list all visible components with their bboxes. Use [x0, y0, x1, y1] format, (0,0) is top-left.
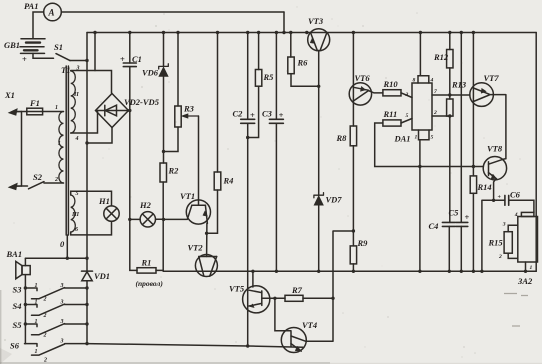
wire left vertical below VD1 to S6 row [86, 281, 88, 344]
wire R8 to R9 [352, 146, 354, 246]
wire C5 to common rail [460, 226, 462, 271]
wire R3 bottom bracket to VD6/R2 line [164, 127, 179, 152]
svg-text:II: II [73, 92, 79, 98]
wire rail to C2 [247, 33, 249, 120]
resistor R11 [383, 120, 401, 126]
speaker BA1 [16, 261, 22, 278]
svg-text:S5: S5 [13, 320, 23, 330]
connector X1 pin 1 arrow [12, 111, 22, 114]
svg-text:R13: R13 [451, 80, 467, 90]
svg-text:5: 5 [406, 113, 409, 119]
scan smudge left edge [0, 290, 1, 364]
svg-text:1: 1 [35, 283, 38, 289]
wire speaker bottom lead to switch column [24, 275, 26, 344]
svg-text:+: + [22, 54, 27, 64]
DA1 pin 7 wire to VT7 base [432, 94, 470, 96]
wire X1 pin2 to S2 [17, 185, 28, 187]
resistor R13 [447, 99, 453, 116]
wire bottom rail sloping like scan [87, 344, 303, 348]
transformer T1 winding II [71, 71, 76, 133]
svg-text:VT1: VT1 [180, 191, 195, 201]
svg-text:C1: C1 [132, 54, 142, 64]
capacitor C2 [241, 119, 255, 123]
wire C1 down through H2 node to R1 left [130, 67, 137, 271]
wire rail to VD6 [163, 33, 165, 67]
wire C3 to common rail [275, 123, 277, 271]
svg-text:3: 3 [502, 222, 506, 228]
svg-text:3: 3 [76, 66, 80, 72]
transistor VT2 [195, 255, 217, 277]
wire rail to R6 [290, 33, 292, 58]
junction dots on positive rail [93, 31, 475, 34]
svg-text:BA1: BA1 [6, 249, 23, 259]
wire speaker top lead [24, 258, 26, 265]
wire rail to R12 [449, 33, 451, 50]
wire bridge bottom vertex to left vertical [87, 128, 112, 144]
svg-text:VT8: VT8 [487, 144, 503, 154]
svg-text:S3: S3 [13, 285, 23, 295]
svg-text:R1: R1 [141, 258, 152, 268]
wire rail to C5 [460, 33, 462, 223]
wire C4 to common rail [448, 226, 450, 271]
wire VT3 emitter down to VD7 [318, 50, 320, 195]
svg-text:T1: T1 [61, 65, 70, 75]
svg-text:3: 3 [60, 300, 64, 306]
wire battery bottom to S1 [33, 53, 54, 58]
wire C2 down through common rail to bottom rail (VT5 base line) [247, 123, 249, 346]
svg-text:R9: R9 [357, 238, 369, 248]
wire T1 terminal 3 to bridge top vertex [71, 71, 112, 94]
svg-text:1: 1 [415, 135, 418, 141]
wire right edge vertical [535, 33, 537, 272]
diode VD1 [82, 270, 93, 272]
DA1 pin 2 wire to R13 bottom [432, 115, 450, 117]
DA1 bottom pins 1 and 5 bracket to common rail [419, 130, 430, 271]
wire H2 right to R2 line [156, 218, 164, 220]
svg-text:1: 1 [55, 105, 58, 111]
resistor R9 [350, 246, 356, 264]
wire R11 left to feedback line to VT8 base [375, 123, 484, 167]
wire T1 terminal 6 to lamp H1 bottom [71, 221, 112, 235]
switch S4 row [25, 305, 38, 308]
wire BA2 pin 1 to common rail [525, 262, 527, 271]
transistor VT3 [308, 29, 330, 51]
wire rail to C1 [129, 33, 131, 64]
svg-text:H1: H1 [98, 196, 110, 206]
wire R7 right up to R8/R9 junction [303, 231, 353, 298]
svg-text:VD7: VD7 [326, 195, 343, 205]
svg-text:7: 7 [434, 89, 437, 95]
wire T1 terminal 5 to lamp H1 [71, 191, 112, 206]
capacitor C3 [269, 119, 283, 123]
resistor R7 [285, 295, 303, 301]
wire R15 bottom to BA2 pin 2 [508, 253, 518, 258]
wire R14 to common rail [472, 193, 474, 271]
svg-text:R10: R10 [383, 79, 399, 89]
resistor R5 [255, 70, 261, 87]
wire bridge right vertex to C1 line [129, 110, 130, 112]
wire R2 to H2 node to R1 right / common rail [162, 182, 164, 270]
resistor R10 [383, 90, 401, 96]
wire rail through VT7 base to R14 [472, 33, 474, 176]
resistor R1 wirewound [137, 268, 156, 273]
svg-text:III: III [71, 212, 80, 218]
wire S2 to T1 winding I bottom [44, 182, 64, 184]
svg-text:R7: R7 [291, 285, 303, 295]
svg-text:PA1: PA1 [24, 1, 38, 11]
svg-text:S1: S1 [54, 42, 63, 52]
svg-text:VD2-VD5: VD2-VD5 [124, 97, 160, 107]
wire VT7 collector right and down to VT8 [489, 95, 506, 160]
svg-text:ЗА2: ЗА2 [517, 276, 533, 286]
svg-text:C5: C5 [449, 208, 460, 218]
svg-text:VT7: VT7 [484, 73, 500, 83]
svg-text:R15: R15 [488, 238, 504, 248]
svg-text:R3: R3 [183, 104, 195, 114]
transistor VT5 [243, 286, 270, 313]
wire VD6 to R2 node [163, 76, 165, 163]
svg-text:VD6: VD6 [142, 68, 159, 78]
svg-text:R4: R4 [223, 176, 234, 186]
wire rail to R4 [217, 33, 219, 173]
svg-text:3: 3 [60, 339, 64, 345]
wire R5 bottom jog to C2 line [248, 86, 259, 137]
capacitor C1 [123, 63, 136, 67]
wire VT5 collector to common rail [252, 271, 254, 287]
battery GB1 plates [21, 38, 45, 40]
scan faint marks bottom right [504, 294, 528, 327]
diode VD6 zener [159, 64, 169, 69]
resistor R4 [214, 172, 221, 190]
svg-text:F1: F1 [29, 98, 40, 108]
bridge rectifier VD2-VD5 [96, 94, 129, 128]
wire left vertical x=87 from rail to VD1 [86, 33, 88, 272]
switch S2 blade [29, 182, 45, 189]
wire R10 to DA1 pin 3 [401, 93, 412, 98]
svg-text:R2: R2 [168, 166, 180, 176]
svg-text:+: + [279, 110, 284, 120]
wire VT6 to R10 [368, 91, 383, 93]
svg-text:VT3: VT3 [308, 16, 324, 26]
wire C6 line left branch to common rail [482, 200, 505, 271]
lamp H2 [140, 212, 155, 227]
svg-text:6: 6 [75, 227, 78, 233]
wire VD7 to common rail [318, 205, 320, 271]
svg-text:C3: C3 [262, 109, 273, 119]
transformer T1 winding I (primary) [59, 112, 64, 184]
svg-text:2: 2 [433, 110, 437, 116]
wire rail to R3 [177, 33, 179, 107]
wire speaker to VD1 anode [25, 257, 87, 259]
svg-text:C6: C6 [510, 190, 521, 200]
resistor R6 [288, 57, 294, 74]
svg-text:C4: C4 [429, 221, 439, 231]
svg-text:R14: R14 [477, 182, 492, 192]
svg-text:R8: R8 [336, 133, 348, 143]
wire ammeter to battery top [33, 12, 44, 39]
svg-text:4: 4 [430, 78, 434, 84]
junction dots on common rail [251, 270, 527, 273]
transformer T1 winding III [71, 195, 76, 232]
wire VT4 collector to R7 vertical [306, 298, 333, 341]
wire R13 to C4 [449, 116, 451, 222]
wire VT5 to R7 [262, 297, 285, 299]
wire R12 to pin7 node [449, 68, 451, 99]
svg-text:S4: S4 [13, 301, 22, 311]
svg-text:DA1: DA1 [394, 134, 411, 144]
svg-text:3: 3 [60, 283, 64, 289]
wire R15 top to BA2 pin 3 [508, 225, 518, 231]
resistor R15 [504, 232, 512, 254]
wire top rail from ammeter to drop at x=284 [61, 11, 284, 13]
wire main positive rail y=32.5 [87, 32, 536, 34]
svg-text:S6: S6 [10, 341, 20, 351]
lamp H1 [104, 206, 119, 221]
svg-text:A: A [48, 8, 55, 18]
transistor VT1 [186, 200, 210, 224]
transistor VT6 [349, 83, 371, 105]
svg-text:VT4: VT4 [302, 320, 317, 330]
wire R6 bottom to VT3 emitter node [291, 74, 319, 87]
transformer T1 core [65, 66, 67, 235]
wire X1 pair vertical [21, 112, 23, 187]
wire S1 to left vertical [70, 60, 87, 62]
wire bracket from rail to terminal 3 wire [94, 33, 96, 71]
wire VT5 node down to VT4 base [275, 298, 291, 331]
wire H2 left to C1 line [130, 218, 140, 220]
svg-text:GB1: GB1 [4, 40, 20, 50]
IC DA1 [412, 83, 432, 130]
svg-text:5: 5 [431, 135, 434, 141]
wire rail to C3 [275, 33, 277, 120]
svg-text:4: 4 [75, 136, 79, 142]
resistor R8 [350, 126, 356, 146]
scan smudge bottom edge [0, 362, 330, 364]
capacitor C5 [456, 222, 468, 226]
phone BA2 top tab [521, 212, 534, 216]
switch S3 row [25, 288, 38, 291]
ammeter PA1 [44, 3, 62, 21]
svg-text:5: 5 [76, 191, 79, 197]
svg-text:(провол): (провол) [136, 279, 164, 288]
svg-text:R6: R6 [297, 58, 309, 68]
wire R4 to VT1 emitter node [207, 190, 218, 233]
switch S6 row [25, 344, 38, 347]
svg-text:2: 2 [54, 177, 58, 183]
svg-text:H2: H2 [139, 200, 152, 210]
svg-text:VD1: VD1 [94, 271, 110, 281]
wire H2 node to VT1 base [163, 218, 186, 220]
resistor R12 [447, 50, 453, 68]
wire VT8 emitter down to C6 line [494, 179, 496, 200]
transistor VT4 [281, 328, 306, 353]
svg-text:8: 8 [413, 78, 416, 84]
svg-text:VT2: VT2 [188, 243, 204, 253]
wire R11 to DA1 pin 5 [401, 119, 412, 124]
DA1 top pins 8 and 4 bracket to rail [418, 33, 429, 84]
transistor VT8 [483, 157, 506, 180]
capacitor C6 [505, 195, 509, 205]
wire T1 core to common point 0 [66, 235, 68, 258]
svg-text:+: + [120, 54, 125, 64]
switch S1 blade [56, 54, 70, 61]
svg-text:1: 1 [35, 349, 38, 355]
svg-text:+: + [250, 110, 255, 120]
wire common rail y=271.3 [163, 270, 536, 272]
svg-text:+: + [498, 195, 502, 201]
diode VD7 zener [314, 193, 324, 198]
svg-text:1: 1 [530, 265, 533, 271]
switch S5 row [25, 324, 38, 327]
wire R1 right to common rail start [156, 269, 163, 271]
fuse F1 [27, 108, 43, 115]
wire VT1 emitter down to VT2 [206, 223, 208, 256]
junction dots middle and right [205, 85, 495, 348]
svg-text:X1: X1 [4, 90, 15, 100]
capacitor C4 [442, 222, 455, 226]
R3 wiper arrow [184, 115, 199, 117]
svg-text:4: 4 [514, 212, 518, 218]
svg-text:3: 3 [60, 319, 64, 325]
svg-text:2: 2 [43, 313, 47, 319]
svg-text:2: 2 [43, 333, 47, 339]
wire T1 terminal 4 to bridge left vertex [71, 111, 98, 133]
wire X1 to fuse to T1 winding I top [17, 111, 64, 113]
resistor R3 (variable) [175, 106, 181, 127]
wire R9 to common rail [352, 264, 354, 271]
svg-text:S2: S2 [33, 172, 43, 182]
transistor VT7 [470, 83, 494, 107]
svg-text:2: 2 [498, 254, 502, 260]
phone BA2 body [518, 217, 538, 263]
wire rail through VT6 to R8 [352, 33, 354, 127]
svg-text:VT6: VT6 [355, 73, 371, 83]
wire R3 wiper down to VT1 [198, 116, 200, 205]
svg-text:+: + [465, 212, 470, 222]
wire rail to R5 [258, 33, 260, 70]
svg-text:1: 1 [35, 319, 38, 325]
junction dots left area [24, 59, 166, 346]
svg-text:3: 3 [405, 92, 409, 98]
svg-text:2: 2 [43, 297, 47, 303]
connector X1 pin 2 arrow [12, 185, 22, 188]
svg-text:C2: C2 [233, 109, 244, 119]
resistor R2 [160, 163, 167, 182]
wire drop from top rail to main rail [283, 12, 285, 33]
svg-text:R12: R12 [433, 52, 449, 62]
svg-text:1: 1 [35, 300, 38, 306]
svg-text:R11: R11 [383, 109, 398, 119]
svg-text:R5: R5 [263, 72, 275, 82]
resistor R14 [470, 176, 476, 193]
svg-text:VT5: VT5 [229, 284, 245, 294]
wire C6 to BA2 top [509, 200, 534, 212]
